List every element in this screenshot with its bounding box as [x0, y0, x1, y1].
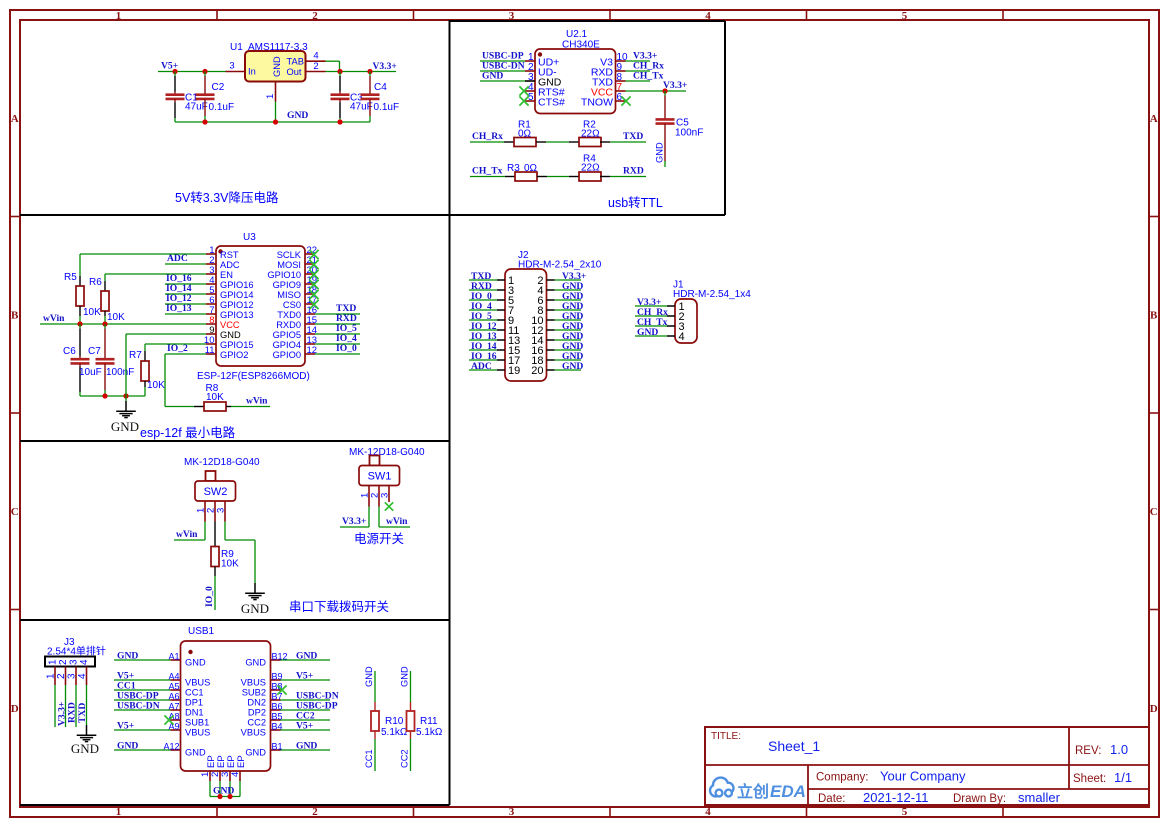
svg-text:R5: R5 — [64, 272, 77, 283]
net label GND — [287, 110, 308, 121]
wire VCC to V3.3+ — [626, 90, 687, 92]
LCEDA logo — [710, 778, 806, 801]
svg-text:AMS1117-3.3: AMS1117-3.3 — [248, 42, 308, 53]
svg-text:CS0: CS0 — [283, 300, 301, 310]
wire USB1 left — [114, 709, 171, 711]
net label V5+ at USB1 right — [296, 721, 313, 732]
wire USB1 right — [281, 659, 331, 661]
svg-text:0Ω: 0Ω — [518, 129, 532, 140]
wire J2 pin 15 — [469, 349, 497, 351]
svg-text:RST: RST — [220, 250, 239, 260]
wire R6 to pin3 — [105, 273, 206, 275]
wire pin9 GND down — [126, 334, 206, 396]
net label CH_Tx at J1 pin 3 — [637, 317, 668, 328]
net label IO_12 pin6 — [166, 293, 192, 304]
net label V3.3+ at J1 pin 1 — [637, 297, 661, 308]
svg-text:TXD: TXD — [623, 131, 643, 142]
svg-text:IO_0: IO_0 — [204, 586, 215, 607]
svg-text:IO_2: IO_2 — [167, 343, 188, 354]
svg-text:3: 3 — [380, 493, 391, 498]
svg-text:C6: C6 — [63, 346, 76, 357]
switch SW2 MK-12D18-G040 — [184, 457, 260, 522]
net label V3.3+ — [373, 61, 397, 72]
svg-text:REV:: REV: — [1075, 745, 1101, 757]
wire J2 pin 13 — [469, 339, 497, 341]
capacitor C7 100nF — [88, 324, 134, 396]
wire J2 pin 14 — [555, 339, 582, 341]
wire pin14 — [315, 333, 360, 335]
wire SW2 pin3 to ground — [225, 522, 255, 584]
svg-text:19: 19 — [508, 365, 520, 377]
wire pin12 — [315, 353, 360, 355]
svg-text:Out: Out — [287, 67, 302, 77]
svg-text:VBUS: VBUS — [185, 678, 210, 688]
header J3 2.54*4 pin header — [45, 637, 106, 685]
wire J3 pin4 to ground — [86, 685, 88, 725]
svg-text:C: C — [1150, 506, 1158, 518]
net label IO_4 pin13 — [336, 333, 357, 344]
svg-text:5: 5 — [902, 806, 908, 818]
svg-text:10K: 10K — [107, 312, 125, 323]
svg-text:usb转TTL: usb转TTL — [608, 195, 663, 210]
svg-text:4: 4 — [679, 331, 685, 343]
net label GND at J2 pin 8 — [562, 301, 583, 312]
junction dots EP ground — [217, 794, 232, 799]
net label RXD at J2 pin 3 — [471, 281, 492, 292]
ground symbol J3 — [71, 725, 99, 756]
svg-text:Company:: Company: — [816, 772, 868, 784]
resistor R5 10K — [64, 254, 101, 324]
net label USBC-DP at USB1 right — [296, 701, 338, 712]
net label wVin at SW2 — [176, 529, 198, 540]
svg-text:D: D — [11, 703, 19, 715]
net label CH_Rx row1 — [472, 131, 503, 142]
svg-text:4: 4 — [230, 772, 241, 777]
net label CC1 rotated at R10 — [364, 749, 374, 768]
net label wVin at R8 — [246, 396, 268, 407]
junction dots wVin rail — [77, 321, 107, 326]
wire pin6 — [165, 303, 206, 305]
svg-text:GND: GND — [185, 748, 206, 758]
svg-text:CC2: CC2 — [247, 718, 266, 728]
svg-text:2021-12-11: 2021-12-11 — [863, 790, 929, 805]
wire 3.3V output — [326, 71, 397, 73]
svg-text:GPIO10: GPIO10 — [267, 270, 301, 280]
svg-text:MISO: MISO — [277, 290, 301, 300]
junction dots ground rail esp — [102, 393, 128, 398]
junction dots on top rail — [172, 69, 372, 74]
wire SW1 pin1 to V3.3+ — [340, 507, 369, 528]
wire R5 to pin1 — [80, 253, 206, 255]
svg-text:GND: GND — [482, 71, 503, 82]
svg-text:GND: GND — [272, 56, 282, 77]
net label GND at J2 pin 10 — [562, 311, 583, 322]
net label IO_0 at J2 pin 5 — [471, 291, 492, 302]
svg-text:MK-12D18-G040: MK-12D18-G040 — [349, 447, 425, 458]
capacitor C6 10uF — [63, 324, 102, 396]
svg-text:GND: GND — [185, 658, 206, 668]
svg-text:SCLK: SCLK — [277, 250, 302, 260]
svg-text:A: A — [1150, 113, 1158, 125]
resistor R10 5.1k — [371, 671, 408, 771]
svg-text:RXD: RXD — [623, 166, 644, 177]
svg-text:3: 3 — [216, 508, 227, 513]
wire J2 pin 11 — [469, 329, 497, 331]
module U3 ESP-12F — [204, 232, 317, 366]
svg-text:GPIO4: GPIO4 — [273, 340, 301, 350]
svg-text:CH340E: CH340E — [562, 40, 600, 51]
svg-text:wVin: wVin — [43, 313, 65, 324]
svg-text:10K: 10K — [206, 392, 224, 403]
wire pin1 — [480, 60, 525, 62]
net label IO_16 pin4 — [166, 273, 192, 284]
wire J2 pin 2 — [555, 279, 582, 281]
svg-text:wVin: wVin — [246, 396, 268, 407]
header J1 HDR-M-2.54_1x4 — [667, 280, 751, 344]
net label GND at J2 pin 12 — [562, 321, 583, 332]
svg-text:R10: R10 — [385, 716, 404, 727]
net label CC2 rotated at R11 — [400, 749, 410, 768]
net label GND at USB1 right — [296, 651, 317, 662]
svg-text:2: 2 — [58, 659, 69, 665]
svg-text:Date:: Date: — [818, 793, 846, 805]
net label USBC-DN at USB1 right — [296, 691, 339, 702]
net label GND rotated at R10 — [364, 666, 374, 687]
svg-text:5: 5 — [902, 10, 908, 22]
svg-text:esp-12f 最小电路: esp-12f 最小电路 — [140, 425, 236, 440]
svg-text:SW1: SW1 — [368, 471, 392, 483]
svg-text:ADC: ADC — [220, 260, 240, 270]
svg-text:R6: R6 — [89, 277, 102, 288]
svg-text:TITLE:: TITLE: — [711, 731, 741, 742]
svg-text:CH_Tx: CH_Tx — [633, 71, 664, 82]
capacitor C3 47uF — [331, 72, 373, 123]
svg-text:GPIO16: GPIO16 — [220, 280, 254, 290]
svg-text:4: 4 — [705, 806, 711, 818]
wire USB1 right — [281, 699, 331, 701]
resistor R3 0 ohm — [470, 163, 547, 181]
wire J1 pin 1 — [635, 305, 667, 307]
svg-text:GPIO0: GPIO0 — [273, 350, 301, 360]
svg-text:1: 1 — [116, 10, 122, 22]
wire U1 pin1 to ground rail — [275, 102, 277, 123]
net label IO_0 pin12 — [336, 343, 357, 354]
wire J2 pin 10 — [555, 319, 582, 321]
net label GND — [482, 71, 503, 82]
svg-text:5V转3.3V降压电路: 5V转3.3V降压电路 — [175, 190, 279, 205]
wire USB1 left — [114, 749, 171, 751]
svg-text:TXD0: TXD0 — [277, 310, 301, 320]
net label CH_Rx pin9 — [633, 61, 664, 72]
svg-text:1: 1 — [48, 659, 59, 665]
svg-text:IO_13: IO_13 — [166, 303, 192, 314]
net label GND at USB1 left — [117, 651, 138, 662]
svg-text:3: 3 — [69, 659, 80, 665]
net label IO_5 pin14 — [336, 323, 357, 334]
svg-text:VBUS: VBUS — [241, 728, 266, 738]
net label IO_2 pin11 — [167, 343, 188, 354]
section title 5V to 3.3V buck — [175, 190, 279, 205]
svg-text:10uF: 10uF — [79, 367, 102, 378]
wire USB1 left — [114, 659, 171, 661]
wire pin9 — [626, 70, 651, 72]
svg-text:CH_Rx: CH_Rx — [472, 131, 503, 142]
wire R1 to R2 — [546, 141, 569, 143]
svg-text:22Ω: 22Ω — [581, 163, 600, 174]
svg-text:In: In — [248, 67, 256, 77]
net label GND at USB1 right — [296, 741, 317, 752]
IC U2.1 CH340E — [525, 29, 628, 114]
svg-text:GND: GND — [241, 601, 269, 616]
junction dot VCC — [662, 88, 667, 93]
net label ADC pin2 — [167, 253, 188, 264]
svg-text:0.1uF: 0.1uF — [209, 102, 235, 113]
wire SW1 pin2 to wVin — [379, 507, 410, 528]
net label V3.3+ at J2 pin 2 — [562, 271, 586, 282]
wire J1 pin 3 — [635, 325, 667, 327]
svg-text:2: 2 — [312, 10, 318, 22]
svg-text:VCC: VCC — [220, 320, 240, 330]
net label V5+ at USB1 right — [296, 671, 313, 682]
net label TXD row1 — [623, 131, 643, 142]
svg-text:B: B — [11, 310, 19, 322]
section title power switch — [354, 532, 404, 546]
net label V5+ at USB1 left — [117, 721, 134, 732]
svg-text:GPIO9: GPIO9 — [273, 280, 301, 290]
svg-text:CH_Tx: CH_Tx — [472, 166, 503, 177]
svg-text:3: 3 — [67, 673, 78, 679]
svg-text:EN: EN — [220, 270, 233, 280]
net label ADC at J2 pin 19 — [471, 361, 492, 372]
svg-text:C4: C4 — [374, 82, 387, 93]
svg-text:wVin: wVin — [386, 516, 408, 527]
svg-text:5.1kΩ: 5.1kΩ — [416, 727, 443, 738]
wire pin8 — [626, 80, 651, 82]
svg-text:CTS#: CTS# — [538, 97, 565, 109]
net label GND at USB1 left — [117, 741, 138, 752]
wire USB1 right — [281, 709, 331, 711]
svg-text:GND: GND — [245, 658, 266, 668]
net label TXD rotated at J3 pin3 — [76, 685, 88, 727]
ground symbol esp — [111, 396, 139, 434]
section title usb to TTL — [608, 195, 663, 210]
net label USBC-DN at USB1 left — [117, 701, 160, 712]
svg-text:GPIO2: GPIO2 — [220, 350, 248, 360]
resistor R6 10K — [89, 274, 125, 324]
svg-text:A: A — [11, 113, 19, 125]
resistor R2 22 ohm — [569, 120, 646, 147]
net label IO_5 at J2 pin 9 — [471, 311, 492, 322]
wire R3 to R4 — [547, 176, 569, 178]
resistor R9 10K — [211, 522, 239, 611]
switch SW1 MK-12D18-G040 — [349, 447, 425, 507]
net label GND at J2 pin 16 — [562, 341, 583, 352]
voltage regulator U1 AMS1117-3.3 — [226, 42, 326, 102]
svg-text:VBUS: VBUS — [241, 678, 266, 688]
net label IO_0 rotated — [204, 586, 215, 607]
no-connect mark SW1 pin3 — [385, 502, 393, 510]
capacitor C1 47uF — [166, 72, 208, 123]
no-connect marks SUB1 SUB2 — [164, 685, 286, 724]
svg-text:10K: 10K — [147, 380, 165, 391]
svg-text:EDA: EDA — [770, 782, 806, 801]
resistor R7 10K — [129, 344, 206, 396]
svg-text:Drawn By:: Drawn By: — [953, 793, 1006, 805]
net label GND at J1 pin 4 — [637, 327, 658, 338]
svg-text:GPIO5: GPIO5 — [273, 330, 301, 340]
wire USB1 left — [114, 689, 171, 691]
wire J2 pin 8 — [555, 309, 582, 311]
svg-text:SW2: SW2 — [204, 486, 228, 498]
wire J2 pin 4 — [555, 289, 582, 291]
net label V5+ — [161, 61, 178, 72]
resistor R8 10K — [194, 383, 270, 411]
svg-text:GND: GND — [364, 666, 374, 687]
svg-text:CC1: CC1 — [364, 749, 374, 768]
svg-text:2: 2 — [312, 806, 318, 818]
svg-text:串口下载拨码开关: 串口下载拨码开关 — [289, 600, 389, 614]
net label CH_Tx row2 — [472, 166, 503, 177]
svg-text:U1: U1 — [230, 42, 243, 53]
net label TXD at J2 pin 1 — [471, 271, 491, 282]
wire J2 pin 17 — [469, 359, 497, 361]
svg-text:GPIO13: GPIO13 — [220, 310, 254, 320]
svg-text:22Ω: 22Ω — [581, 129, 600, 140]
net label IO_12 at J2 pin 11 — [471, 321, 497, 332]
svg-text:RXD0: RXD0 — [276, 320, 301, 330]
wire ground rail — [175, 121, 370, 123]
svg-text:GPIO14: GPIO14 — [220, 290, 254, 300]
svg-text:DP1: DP1 — [185, 698, 203, 708]
net label CC1 at USB1 left — [117, 681, 136, 692]
wire J2 pin 18 — [555, 359, 582, 361]
no-connect marks U3 pins 17-22 — [309, 250, 318, 309]
resistor R1 0 ohm — [470, 120, 546, 147]
svg-text:5: 5 — [528, 92, 534, 103]
wire J1 pin 4 — [635, 335, 667, 337]
net label IO_14 pin5 — [166, 283, 192, 294]
wire J2 pin 9 — [469, 319, 497, 321]
ground symbol SW2 — [241, 583, 269, 616]
net label GND at J2 pin 18 — [562, 351, 583, 362]
wire pin16 — [315, 313, 360, 315]
svg-text:MOSI: MOSI — [277, 260, 301, 270]
net label CC2 at USB1 right — [296, 711, 315, 722]
svg-text:0.1uF: 0.1uF — [374, 102, 400, 113]
wire J2 pin 20 — [555, 369, 582, 371]
net label GND at J2 pin 6 — [562, 291, 583, 302]
svg-text:2: 2 — [313, 61, 318, 72]
wire J2 pin 5 — [469, 299, 497, 301]
svg-text:3: 3 — [229, 61, 234, 72]
net label CH_Rx at J1 pin 2 — [637, 307, 668, 318]
svg-text:GND: GND — [220, 330, 241, 340]
net label IO_14 at J2 pin 15 — [471, 341, 497, 352]
wire USB1 right — [281, 719, 331, 721]
svg-text:EP: EP — [236, 755, 247, 768]
svg-text:U3: U3 — [243, 232, 256, 243]
svg-text:Sheet:: Sheet: — [1073, 773, 1106, 785]
net label V5+ at USB1 left — [117, 671, 134, 682]
svg-text:4: 4 — [79, 659, 90, 665]
net label wVin rail — [43, 313, 65, 324]
net label RXD row2 — [623, 166, 644, 177]
svg-text:GND: GND — [287, 110, 308, 121]
svg-text:1.0: 1.0 — [1110, 742, 1128, 757]
net label GND at J2 pin 20 — [562, 361, 583, 372]
resistor R11 5.1k — [407, 671, 443, 771]
svg-text:HDR-M-2.54_1x4: HDR-M-2.54_1x4 — [673, 289, 751, 300]
resistor R4 22 ohm — [569, 154, 646, 182]
svg-text:GPIO15: GPIO15 — [220, 340, 254, 350]
svg-text:1: 1 — [116, 806, 122, 818]
header J2 HDR-M-2.54_2x10 — [497, 250, 602, 381]
net label IO_13 pin7 — [166, 303, 192, 314]
svg-text:CC1: CC1 — [185, 688, 204, 698]
wire J2 pin 3 — [469, 289, 497, 291]
wire pin11 to R8 — [165, 354, 206, 407]
wire EP pins to ground net — [210, 781, 240, 797]
wire J2 pin 6 — [555, 299, 582, 301]
svg-text:D: D — [1150, 703, 1158, 715]
svg-text:5.1kΩ: 5.1kΩ — [381, 727, 408, 738]
net label GND at EP — [213, 786, 234, 797]
wire pin7 — [165, 313, 206, 315]
net label TXD pin16 — [336, 303, 356, 314]
svg-text:1: 1 — [46, 673, 57, 679]
svg-text:IO_0: IO_0 — [336, 343, 357, 354]
svg-text:GND: GND — [245, 748, 266, 758]
wire J1 pin 2 — [635, 315, 667, 317]
net label IO_13 at J2 pin 13 — [471, 331, 497, 342]
net label CH_Tx pin8 — [633, 71, 664, 82]
wire pin4 — [165, 283, 206, 285]
svg-text:DP2: DP2 — [248, 708, 266, 718]
svg-text:1/1: 1/1 — [1114, 770, 1132, 785]
svg-text:C2: C2 — [212, 82, 225, 93]
net label GND at J2 pin 4 — [562, 281, 583, 292]
svg-text:GND: GND — [71, 741, 99, 756]
net label V3.3+ rotated at J3 pin1 — [55, 685, 67, 727]
net label USBC-DN — [482, 61, 525, 72]
section title esp-12f minimal circuit — [140, 425, 236, 440]
svg-text:100nF: 100nF — [675, 128, 703, 139]
svg-text:GND: GND — [111, 419, 139, 434]
svg-text:C: C — [11, 506, 19, 518]
wire V5+ input — [158, 71, 226, 73]
net label USBC-DP at USB1 left — [117, 691, 159, 702]
svg-text:R11: R11 — [420, 716, 438, 727]
svg-text:U2.1: U2.1 — [566, 29, 588, 40]
net label V3.3+ at SW1 — [342, 516, 366, 527]
wire J2 pin 19 — [469, 369, 497, 371]
svg-text:HDR-M-2.54_2x10: HDR-M-2.54_2x10 — [518, 260, 602, 271]
wire pin2 — [165, 263, 206, 265]
svg-text:C7: C7 — [88, 346, 101, 357]
wire J2 pin 16 — [555, 349, 582, 351]
net label V3.3+ pin10 — [633, 51, 657, 62]
no-connect marks RTS CTS TNOW — [519, 86, 630, 105]
svg-text:GND: GND — [213, 786, 234, 797]
svg-text:VBUS: VBUS — [185, 728, 210, 738]
wire USB1 left — [114, 699, 171, 701]
wire pin2 — [480, 70, 525, 72]
wire pin3 — [480, 80, 525, 82]
svg-text:4: 4 — [77, 673, 88, 679]
svg-text:GND: GND — [400, 666, 410, 687]
capacitor C4 0.1uF — [361, 72, 400, 123]
svg-text:3: 3 — [509, 806, 515, 818]
